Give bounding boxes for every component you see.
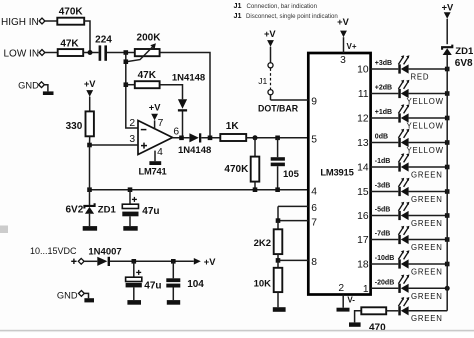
terminal power GND — [79, 291, 85, 297]
wire V+ to 330 — [89, 97, 91, 112]
svg-text:1K: 1K — [226, 121, 240, 132]
wire to 2K2 — [277, 221, 279, 230]
diode D1 1N4148 vertical — [178, 99, 187, 109]
node rail-330 — [87, 187, 92, 192]
svg-text:3: 3 — [129, 134, 135, 145]
wire LED D11 anode to rail — [409, 93, 448, 95]
wire LED D15 anode to rail — [409, 191, 448, 193]
LED D17 green wire — [371, 239, 399, 241]
wire power + to D3 — [84, 260, 97, 262]
wire ref LED to rail — [409, 310, 448, 312]
wire 105 to ref rail — [277, 166, 279, 190]
wire 1K to pin5 — [246, 137, 308, 139]
node pin6-7 join — [276, 218, 281, 223]
wire pin7 — [278, 220, 308, 222]
node rail-47u — [128, 187, 133, 192]
node rect output node — [208, 136, 213, 141]
svg-text:LM3915: LM3915 — [320, 166, 353, 177]
ground input GND — [43, 91, 54, 95]
wire 470 to ref LED — [386, 310, 398, 312]
node 105 top node — [275, 136, 280, 141]
supply arrow rail V+ — [444, 12, 451, 19]
node ref node — [87, 143, 92, 148]
svg-text:J1: J1 — [234, 11, 242, 20]
ground 47u ground — [123, 226, 137, 231]
node wiper tap — [124, 59, 129, 64]
LED D11 yellow — [398, 89, 401, 98]
node rail pad pin 14 — [445, 165, 450, 170]
svg-text:YELLOW: YELLOW — [407, 146, 444, 155]
LED D13 yellow wire — [371, 142, 399, 144]
node rail pad pin 17 — [445, 237, 450, 242]
wire LED D10 anode to rail — [409, 68, 448, 70]
terminal LOW IN — [39, 50, 45, 56]
resistor 47K feedback — [135, 81, 160, 88]
node pin6 node — [179, 136, 184, 141]
wire node to 470K — [254, 138, 256, 157]
resistor 2K2 — [274, 229, 283, 254]
wire rail to 47u — [129, 190, 131, 205]
wire 2K2 to pin8 — [277, 254, 279, 260]
node rail pad pin 11 — [445, 91, 450, 96]
svg-text:-1dB: -1dB — [375, 158, 391, 165]
node fb node top — [124, 50, 129, 55]
svg-text:1N4007: 1N4007 — [88, 246, 121, 257]
svg-text:+1dB: +1dB — [375, 109, 392, 116]
wire LED D16 anode to rail — [409, 215, 448, 217]
wire 470 left to ground — [355, 311, 362, 323]
wire 47K fb to D1 — [160, 85, 183, 100]
wire node to 105 — [277, 138, 279, 157]
wire pin2 V- — [342, 295, 344, 308]
wire LED D18 anode to rail — [409, 263, 448, 265]
wire D1 to op-amp output — [182, 112, 184, 138]
node rail pad pin 16 — [445, 213, 450, 218]
wire power GND to bar — [84, 293, 88, 298]
terminal HIGH IN — [39, 18, 45, 24]
svg-text:224: 224 — [95, 34, 112, 45]
svg-text:2: 2 — [338, 283, 344, 294]
LED D12 yellow — [398, 113, 401, 122]
ground 470 ground — [349, 322, 361, 326]
svg-text:11: 11 — [358, 89, 369, 100]
svg-text:YELLOW: YELLOW — [407, 97, 444, 106]
svg-text:GREEN: GREEN — [411, 219, 443, 228]
node rail pad pin 1 — [445, 286, 450, 291]
plus terminal mark — [71, 260, 76, 262]
diode D3 1N4007 — [97, 257, 107, 266]
svg-text:LM741: LM741 — [139, 167, 167, 177]
wire node to 104 — [172, 261, 174, 278]
wire ZD1 to ground — [89, 214, 91, 226]
wire output to D2 — [173, 137, 190, 139]
wire R2 to C1 — [83, 52, 98, 54]
svg-text:47u: 47u — [144, 281, 161, 292]
svg-text:2K2: 2K2 — [254, 238, 271, 249]
LED D18 green wire — [371, 263, 399, 265]
node 470K top node — [253, 135, 258, 140]
svg-text:9: 9 — [311, 97, 317, 108]
wire LED D17 anode to rail — [409, 239, 448, 241]
wire R1 to LOW line — [84, 21, 90, 53]
svg-text:470: 470 — [369, 322, 386, 333]
svg-text:ZD1: ZD1 — [455, 46, 474, 57]
wire 470K to ref rail — [254, 182, 256, 190]
wire to 10K — [277, 260, 279, 267]
wire pin8 — [278, 259, 308, 261]
svg-text:+V: +V — [149, 103, 161, 113]
svg-text:YELLOW: YELLOW — [407, 122, 444, 131]
resistor 470K input — [57, 18, 84, 25]
node rail pad pin 18 — [445, 262, 450, 267]
wire LED D13 anode to rail — [409, 142, 448, 144]
ground pin2 ground — [337, 308, 350, 312]
svg-text:10: 10 — [357, 65, 369, 76]
wire feedback vertical to pin2 — [126, 53, 138, 129]
potentiometer 200K wiper arrow — [127, 46, 154, 62]
svg-text:+V: +V — [264, 29, 276, 39]
wire rail to ZD1 — [89, 190, 91, 205]
svg-text:6: 6 — [173, 126, 179, 137]
terminal GND top — [39, 82, 45, 88]
svg-text:0dB: 0dB — [375, 134, 388, 141]
node 47u power node — [132, 259, 137, 264]
wire D3 to +V arrow — [110, 260, 194, 262]
LED D1 green wire — [371, 287, 399, 289]
supply arrow 330 V+ — [86, 90, 93, 97]
svg-text:4: 4 — [157, 147, 163, 158]
svg-text:J1: J1 — [258, 76, 267, 86]
svg-text:10K: 10K — [254, 278, 272, 289]
svg-text:DOT/BAR: DOT/BAR — [258, 103, 299, 113]
svg-text:6V8: 6V8 — [455, 58, 473, 69]
svg-text:2: 2 — [129, 118, 135, 129]
ground 10K ground — [273, 307, 286, 312]
wire D2 to 1K — [201, 137, 220, 139]
svg-text:13: 13 — [357, 138, 369, 149]
svg-text:+V: +V — [204, 257, 216, 267]
node rail pad pin 10 — [445, 67, 450, 72]
svg-text:104: 104 — [187, 279, 204, 290]
LED D15 green — [398, 187, 401, 196]
wire pin4 to ground — [154, 151, 156, 162]
resistor 1K — [220, 134, 246, 141]
LED D10 red wire — [371, 68, 399, 70]
wire pin6 — [278, 205, 308, 207]
svg-text:+V: +V — [442, 2, 454, 12]
wire GND top to bar — [44, 85, 48, 92]
resistor 470 — [361, 307, 386, 314]
svg-text:7: 7 — [158, 118, 164, 129]
+V output arrow — [194, 258, 201, 265]
wire rail top — [446, 19, 448, 44]
svg-text:ZD1: ZD1 — [98, 205, 117, 216]
svg-text:GREEN: GREEN — [411, 243, 443, 252]
svg-text:6V2: 6V2 — [66, 205, 84, 216]
ground power ground — [84, 298, 94, 302]
svg-text:5: 5 — [311, 135, 317, 146]
zener diode ZD1 6V8 — [442, 45, 452, 50]
svg-text:Disconnect, single point indic: Disconnect, single point indication — [246, 13, 338, 20]
svg-text:-5dB: -5dB — [375, 207, 391, 214]
ground op-amp ground — [149, 161, 161, 165]
wire pin9 — [271, 99, 309, 101]
svg-text:GND: GND — [57, 290, 78, 300]
node input sum — [88, 50, 93, 55]
wire pin3 to ref — [90, 144, 139, 146]
wire 47u power to ground — [133, 287, 135, 300]
potentiometer 200K — [135, 49, 160, 56]
op-amp U1 LM741 — [138, 121, 173, 155]
svg-text:V+: V+ — [347, 42, 357, 51]
wire pin3 V+ — [343, 37, 345, 53]
svg-text:8: 8 — [311, 257, 317, 268]
svg-text:7: 7 — [311, 217, 317, 228]
wire node to 47u power — [133, 261, 135, 277]
svg-text:105: 105 — [283, 169, 300, 180]
svg-text:47K: 47K — [60, 38, 79, 49]
LED D16 green — [398, 211, 401, 220]
svg-text:GREEN: GREEN — [411, 171, 443, 180]
svg-text:47u: 47u — [142, 206, 159, 217]
LED D11 yellow wire — [371, 93, 399, 95]
wire C1 to pot — [107, 52, 135, 54]
resistor 10K — [274, 268, 283, 292]
LED D18 green — [398, 259, 401, 268]
resistor 330 — [86, 111, 94, 136]
decorative — [0, 330, 474, 332]
LED D16 green wire — [371, 215, 399, 217]
svg-text:1N4148: 1N4148 — [172, 73, 205, 84]
wire LED D12 anode to rail — [409, 117, 448, 119]
wire HIGH IN to R1 — [45, 20, 57, 22]
diode D2 1N4148 horizontal — [189, 133, 198, 142]
svg-text:-3dB: -3dB — [375, 183, 391, 190]
node rail-470K — [253, 187, 258, 192]
wire to 47K fb — [126, 84, 135, 86]
node rail pad pin 13 — [445, 140, 450, 145]
node rail pad pin 15 — [445, 189, 450, 194]
wire J1 top lead — [270, 47, 272, 63]
wire LED anode rail — [446, 55, 448, 311]
svg-text:470K: 470K — [59, 7, 84, 18]
svg-text:-10dB: -10dB — [375, 255, 394, 262]
node fb 47K tap — [124, 82, 129, 87]
LED D10 red — [398, 64, 401, 73]
resistor 47K input — [58, 49, 83, 56]
svg-text:J1: J1 — [234, 1, 242, 10]
wire pin7 supply — [154, 120, 156, 129]
svg-text:330: 330 — [66, 121, 83, 132]
supply arrow op-amp V+ — [151, 114, 158, 121]
svg-text:6: 6 — [311, 203, 317, 214]
wire LOW IN to R2 — [45, 52, 58, 54]
svg-text:+V: +V — [84, 79, 96, 89]
svg-text:-7dB: -7dB — [375, 231, 391, 238]
node rail-105 — [275, 187, 280, 192]
supply arrow pin3 V+ — [340, 31, 347, 38]
node pin8 node — [276, 258, 281, 263]
svg-text:+3dB: +3dB — [375, 60, 392, 67]
LED D12 yellow wire — [371, 117, 399, 119]
svg-text:GREEN: GREEN — [411, 195, 443, 204]
wire LED D14 anode to rail — [409, 166, 448, 168]
svg-text:4: 4 — [311, 186, 317, 197]
wire J1 bottom lead — [270, 95, 272, 100]
wire pot to output node — [160, 53, 210, 138]
node rail pad pin 12 — [445, 116, 450, 121]
svg-text:GREEN: GREEN — [411, 268, 443, 277]
wire reference rail — [90, 189, 309, 191]
svg-text:LOW IN: LOW IN — [4, 49, 40, 60]
svg-text:GREEN: GREEN — [411, 314, 443, 323]
capacitor 224 coupling — [99, 45, 102, 60]
svg-text:16: 16 — [357, 211, 369, 222]
svg-text:47K: 47K — [138, 70, 157, 81]
svg-text:17: 17 — [357, 235, 369, 246]
wire 47u to ground — [129, 216, 131, 226]
ground ZD1 ground — [83, 226, 97, 231]
svg-text:+2dB: +2dB — [375, 85, 392, 92]
svg-text:200K: 200K — [137, 33, 162, 44]
svg-text:12: 12 — [357, 114, 369, 125]
ground 104 ground — [167, 300, 180, 305]
svg-text:GND: GND — [18, 81, 39, 91]
IC LM3915 — [308, 53, 370, 295]
wire 330 to ref node — [89, 136, 91, 145]
wire pin6 to pin7 — [277, 206, 279, 220]
terminal power + — [78, 258, 84, 264]
svg-text:V-: V- — [347, 296, 355, 305]
LED D14 green — [398, 162, 401, 171]
svg-text:Connection, bar indication: Connection, bar indication — [247, 3, 317, 10]
LED D17 green — [398, 235, 401, 244]
svg-text:+V: +V — [337, 17, 349, 27]
node 104 node — [171, 259, 176, 264]
svg-text:15: 15 — [357, 187, 369, 198]
LED D15 green wire — [371, 191, 399, 193]
svg-text:3: 3 — [340, 55, 346, 66]
supply arrow J1 V+ — [267, 40, 274, 47]
svg-text:GREEN: GREEN — [411, 292, 443, 301]
svg-text:18: 18 — [357, 260, 369, 271]
svg-text:HIGH IN: HIGH IN — [1, 17, 39, 28]
wire 104 to ground — [172, 288, 174, 301]
LED D14 green wire — [371, 166, 399, 168]
svg-text:1: 1 — [363, 284, 369, 295]
wire LED D1 anode to rail — [409, 287, 448, 289]
svg-text:470K: 470K — [224, 164, 249, 175]
LED reference green — [398, 306, 401, 315]
svg-text:RED: RED — [411, 73, 430, 82]
svg-text:-20dB: -20dB — [375, 279, 394, 286]
wire 10K to ground — [277, 292, 279, 307]
ground 47u power ground — [127, 300, 141, 305]
LED D1 green — [398, 284, 401, 293]
wire ref node down — [89, 145, 91, 190]
svg-text:10...15VDC: 10...15VDC — [30, 246, 77, 256]
LED D13 yellow — [398, 138, 401, 147]
svg-text:1N4148: 1N4148 — [178, 145, 211, 156]
svg-text:14: 14 — [357, 163, 369, 174]
